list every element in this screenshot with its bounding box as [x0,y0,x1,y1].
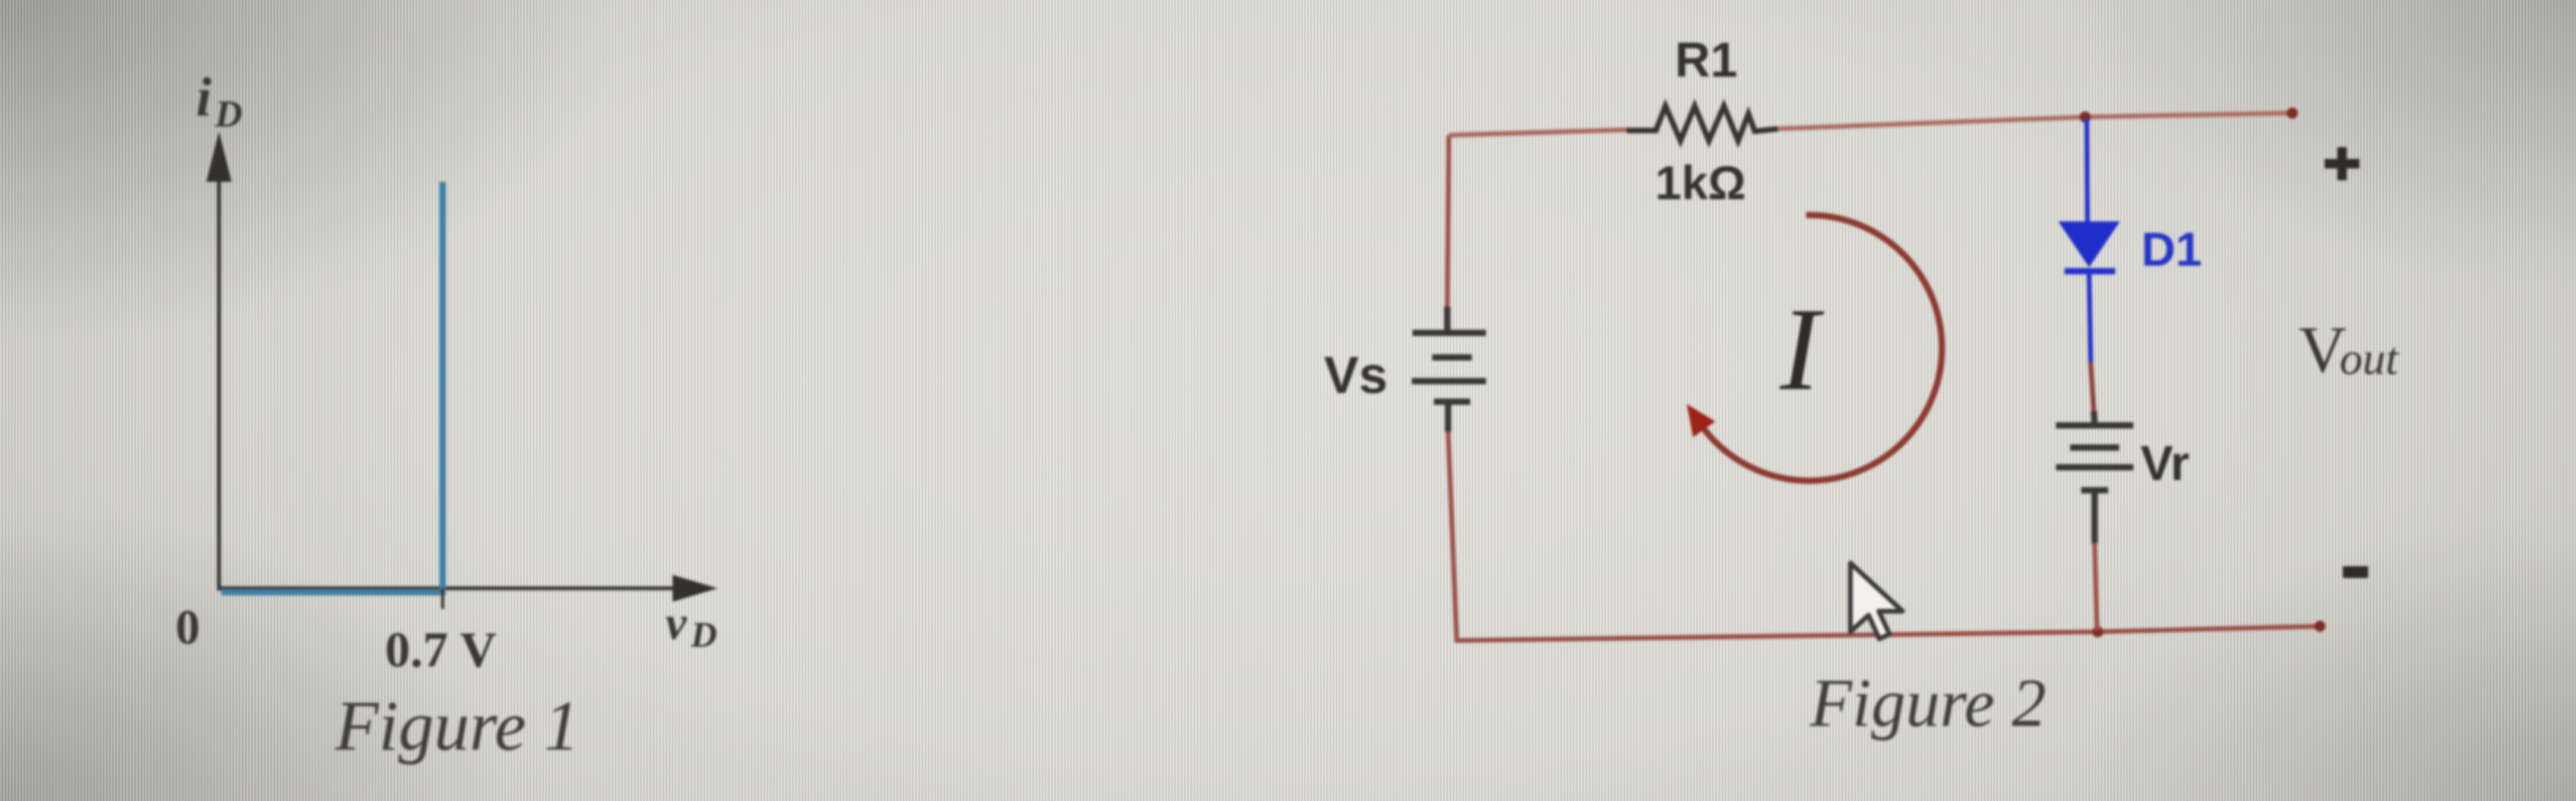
resistor R1 [1627,106,1778,141]
node: bottom right terminal [2314,621,2325,632]
svg-text:D: D [214,93,243,135]
node: junction top (diode tap) [2080,111,2091,123]
svg-text:v: v [666,597,688,649]
x-axis (v_D axis) [217,575,718,602]
label Vout [2299,313,2400,387]
wire: Vr to bottom [2095,542,2097,630]
svg-text:Figure 1: Figure 1 [334,687,579,765]
svg-text:Figure 2: Figure 2 [1809,664,2046,741]
mouse cursor [1850,563,1903,639]
wire: left vertical (Vs branch) [1447,135,1449,308]
wire: bottom side [1448,431,2320,640]
node: junction bottom (Vr tap) [2092,626,2103,637]
wire: diode to Vr [2091,362,2094,413]
svg-text:D: D [690,614,717,655]
diode i-v curve (blue) [221,182,443,592]
current loop I arc [1700,215,1942,481]
label v_D [666,597,717,655]
svg-text:I: I [1779,284,1824,415]
node: top right terminal [2287,108,2298,119]
svg-text:out: out [2340,333,2400,384]
current loop arrowhead [1687,404,1715,437]
battery Vr [2056,411,2133,544]
diode D1 [2058,119,2120,362]
tick at 0.7 V [441,588,444,609]
wire: top right segment (R1 to output) [1775,113,2292,129]
output + terminal sign [2325,147,2359,180]
svg-text:Vs: Vs [1324,346,1388,404]
wire: top left segment (Vs to R1) [1449,130,1630,135]
svg-text:Vr: Vr [2140,436,2189,491]
svg-text:R1: R1 [1675,33,1737,88]
svg-text:1kΩ: 1kΩ [1655,157,1746,210]
label i_D [196,67,243,135]
svg-text:D1: D1 [2141,223,2202,276]
y-axis (i_D axis) [206,131,232,591]
svg-text:0.7 V: 0.7 V [385,622,496,678]
svg-text:0: 0 [175,601,200,655]
battery Vs [1412,307,1486,432]
output - terminal sign [2343,566,2368,578]
svg-text:i: i [196,67,212,128]
